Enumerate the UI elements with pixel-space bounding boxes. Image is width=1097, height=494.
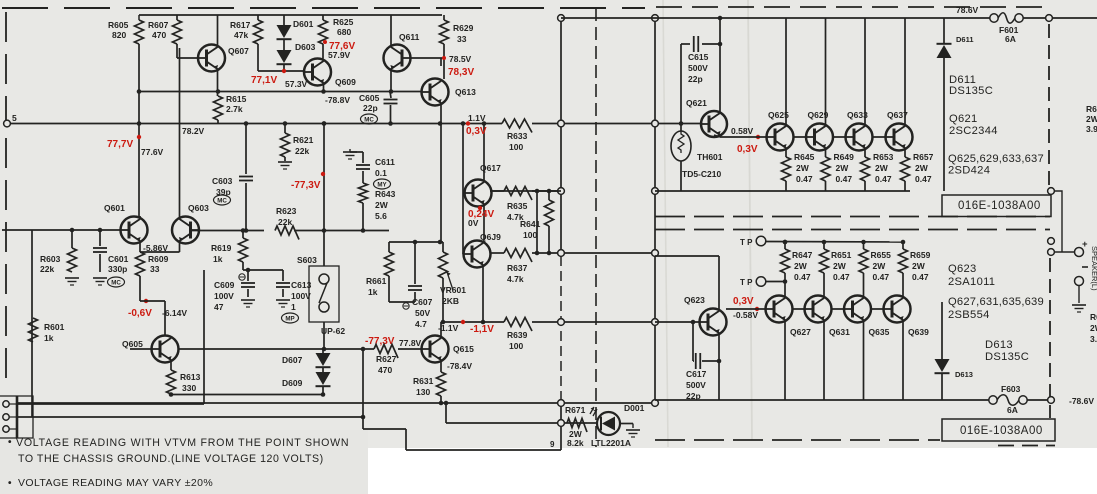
transistor Q607 — [198, 45, 225, 72]
svg-text:D603: D603 — [295, 42, 316, 52]
svg-text:100: 100 — [523, 230, 537, 240]
svg-text:R623: R623 — [276, 206, 297, 216]
resistor R605 — [138, 15, 140, 20]
svg-text:Q629: Q629 — [808, 110, 829, 120]
svg-text:680: 680 — [337, 27, 351, 37]
svg-text:2W: 2W — [915, 163, 929, 173]
svg-text:MC: MC — [111, 279, 121, 286]
box top bottom edge — [655, 216, 1050, 218]
svg-text:R615: R615 — [226, 94, 247, 104]
wire 191 — [490, 190, 504, 192]
svg-text:R645: R645 — [794, 152, 815, 162]
svg-text:R605: R605 — [108, 20, 129, 30]
svg-text:-77,3V: -77,3V — [365, 336, 395, 347]
svg-text:D001: D001 — [624, 403, 645, 413]
svg-text:MC: MC — [217, 197, 227, 204]
svg-text:•: • — [8, 478, 12, 489]
resistor R659 — [902, 242, 904, 249]
potentiometer VR601 — [442, 242, 444, 252]
cap type MC — [214, 195, 231, 205]
resistor R623 — [275, 226, 299, 240]
capacitor C611 — [362, 152, 364, 163]
label -0,6V — [144, 299, 148, 303]
svg-text:-78.6V: -78.6V — [1069, 396, 1094, 406]
label 78.5V — [442, 56, 446, 60]
wire led feed — [445, 403, 447, 423]
transistor Q633 — [846, 124, 873, 151]
svg-text:77,1V: 77,1V — [251, 75, 277, 86]
svg-text:Q605: Q605 — [122, 339, 143, 349]
svg-text:5.6: 5.6 — [375, 211, 387, 221]
svg-text:R639: R639 — [507, 330, 528, 340]
junction — [439, 401, 444, 406]
svg-text:MP: MP — [285, 315, 294, 322]
svg-text:47: 47 — [214, 302, 224, 312]
svg-text:VR601: VR601 — [440, 285, 466, 295]
svg-text:C607: C607 — [412, 297, 433, 307]
svg-text:0.47: 0.47 — [873, 272, 890, 282]
resistor R603 — [71, 230, 73, 248]
svg-text:6A: 6A — [1005, 34, 1016, 44]
svg-text:Q607: Q607 — [228, 46, 249, 56]
resistor R631 — [440, 361, 442, 372]
label 0,3V bottom — [755, 307, 759, 311]
transistor Q629 — [806, 124, 833, 151]
svg-text:R671: R671 — [565, 405, 586, 415]
svg-text:R643: R643 — [375, 189, 396, 199]
node 77.1V — [282, 69, 286, 73]
transistor Q621 — [701, 111, 727, 137]
wire 77.7V rail — [7, 123, 502, 125]
svg-text:R625: R625 — [333, 17, 354, 27]
svg-text:R607: R607 — [148, 20, 169, 30]
svg-text:R637: R637 — [507, 263, 528, 273]
svg-text:-78.4V: -78.4V — [447, 361, 472, 371]
trunk nodes — [558, 15, 565, 22]
box bottom right edge — [1049, 258, 1051, 418]
resistor R633 — [502, 119, 532, 133]
ground D001 — [632, 424, 634, 429]
wire top-right node — [1046, 15, 1053, 22]
resistor R671 — [567, 419, 587, 433]
svg-text:4.7: 4.7 — [415, 319, 427, 329]
svg-text:4.7k: 4.7k — [507, 274, 524, 284]
svg-text:Q631: Q631 — [829, 327, 850, 337]
capacitor C601 — [99, 230, 101, 246]
svg-text:0.47: 0.47 — [796, 174, 813, 184]
svg-text:DS135C: DS135C — [949, 85, 993, 97]
svg-text:2W: 2W — [875, 163, 889, 173]
svg-text:R647: R647 — [792, 250, 813, 260]
resistor R655 — [863, 242, 865, 249]
svg-text:R617: R617 — [230, 20, 251, 30]
svg-text:R659: R659 — [910, 250, 931, 260]
svg-text:1k: 1k — [213, 254, 223, 264]
svg-text:R613: R613 — [180, 372, 201, 382]
diode D611 — [943, 18, 945, 43]
svg-text:100: 100 — [509, 142, 523, 152]
svg-text:016E-1038A00: 016E-1038A00 — [960, 425, 1043, 437]
transistor Q639 — [884, 296, 911, 323]
resistor R625 — [322, 15, 324, 20]
wire S603 top — [323, 231, 325, 267]
resistor R657 — [901, 157, 910, 181]
svg-text:R641: R641 — [520, 219, 541, 229]
capacitor C617 — [692, 322, 694, 361]
capacitor C615 — [681, 43, 690, 45]
svg-text:100: 100 — [509, 341, 523, 351]
svg-text:T P: T P — [740, 278, 753, 287]
transistor Q615 — [422, 336, 449, 363]
wire connector 1 — [17, 403, 204, 405]
svg-text:50V: 50V — [415, 308, 430, 318]
resistor R609 — [136, 252, 145, 276]
wire input line — [2, 229, 120, 231]
svg-text:Q623: Q623 — [948, 263, 977, 275]
wire S603 bottom — [323, 322, 325, 349]
svg-text:D601: D601 — [293, 19, 314, 29]
svg-text:78,3V: 78,3V — [448, 67, 474, 78]
svg-text:VOLTAGE READING WITH VTVM: VOLTAGE READING WITH VTVM FROM THE POINT… — [16, 437, 349, 449]
svg-text:-77,3V: -77,3V — [291, 180, 321, 191]
transistor Q609 — [304, 59, 331, 86]
svg-text:1.1V: 1.1V — [468, 113, 486, 123]
wire to speaker — [1051, 191, 1062, 252]
svg-text:MY: MY — [377, 181, 387, 188]
capacitor C613 — [282, 270, 284, 281]
svg-text:TD5-C210: TD5-C210 — [682, 169, 721, 179]
wire top right rail — [561, 17, 994, 19]
svg-text:2W: 2W — [833, 261, 847, 271]
svg-text:Q611: Q611 — [399, 32, 420, 42]
svg-text:R657: R657 — [913, 152, 934, 162]
wire output base rail bottom — [726, 308, 891, 310]
svg-text:R629: R629 — [453, 23, 474, 33]
wire Q617-Q619 — [483, 205, 485, 240]
svg-text:2SD424: 2SD424 — [948, 165, 990, 177]
diode D603 — [277, 50, 292, 63]
wire Q619 emitter — [482, 266, 484, 322]
svg-text:R631: R631 — [413, 376, 434, 386]
svg-text:Q627,631,635,639: Q627,631,635,639 — [948, 296, 1044, 308]
box bottom top edge — [655, 229, 1050, 231]
svg-text:2KB: 2KB — [442, 296, 459, 306]
svg-text:MC: MC — [364, 116, 374, 123]
svg-text:77.6V: 77.6V — [141, 147, 164, 157]
svg-text:0V: 0V — [468, 218, 479, 228]
transistor Q635 — [844, 296, 871, 323]
svg-text:TO THE CHASSIS GROUND.(LINE: TO THE CHASSIS GROUND.(LINE VOLTAGE 120 … — [18, 453, 324, 465]
wire 253 — [490, 252, 504, 254]
box bottom bottom edge — [655, 439, 940, 441]
svg-text:22p: 22p — [363, 103, 378, 113]
resistor R637 — [504, 249, 532, 263]
svg-text:R653: R653 — [873, 152, 894, 162]
svg-text:1k: 1k — [44, 333, 54, 343]
transistor Q631 — [805, 296, 832, 323]
svg-text:R649: R649 — [834, 152, 855, 162]
wire Q603 emitter — [139, 242, 141, 252]
diode D607 — [322, 349, 324, 353]
svg-text:0,3V: 0,3V — [466, 126, 487, 137]
svg-text:77,7V: 77,7V — [107, 139, 133, 150]
ground C613 — [276, 299, 290, 301]
resistor R613 — [170, 361, 172, 370]
svg-text:33: 33 — [457, 34, 467, 44]
transistor Q627 — [766, 296, 793, 323]
resistor R615 — [214, 96, 223, 120]
svg-text:2W: 2W — [836, 163, 850, 173]
svg-text:Q621: Q621 — [949, 113, 978, 125]
svg-text:8.2k: 8.2k — [567, 438, 584, 448]
svg-text:78.6V: 78.6V — [956, 5, 979, 15]
svg-text:C603: C603 — [212, 176, 233, 186]
label box bottom — [942, 419, 1055, 441]
resistor R635 — [504, 187, 532, 201]
svg-text:R627: R627 — [376, 354, 397, 364]
svg-text:Q6J9: Q6J9 — [480, 232, 501, 242]
vertical trunk x655 — [654, 18, 656, 403]
svg-text:78.2V: 78.2V — [182, 126, 205, 136]
transistor Q619 — [464, 241, 491, 268]
resistor R649 — [821, 157, 830, 181]
wire bottom rail right — [655, 399, 993, 401]
wire cap tops — [243, 269, 283, 271]
cap type MY — [374, 179, 391, 189]
svg-text:0.47: 0.47 — [836, 174, 853, 184]
wire bias top — [389, 241, 443, 243]
wire q617 base col — [462, 124, 464, 255]
svg-text:C609: C609 — [214, 280, 235, 290]
wire tp2 — [756, 277, 766, 287]
svg-text:Q637: Q637 — [887, 110, 908, 120]
resistor R651 — [823, 242, 825, 249]
junction — [137, 121, 142, 126]
svg-text:LTL2201A: LTL2201A — [591, 438, 631, 448]
svg-text:6A: 6A — [1007, 405, 1018, 415]
svg-text:Q609: Q609 — [335, 77, 356, 87]
label 0,3V mid — [756, 135, 760, 139]
wire to Q605 — [139, 276, 141, 301]
svg-text:100V: 100V — [214, 291, 234, 301]
svg-text:2W: 2W — [912, 261, 926, 271]
svg-text:100V: 100V — [291, 291, 311, 301]
svg-text:D613: D613 — [985, 339, 1013, 351]
svg-text:C617: C617 — [686, 369, 707, 379]
svg-text:F603: F603 — [1001, 384, 1021, 394]
svg-text:820: 820 — [112, 30, 126, 40]
svg-text:9: 9 — [550, 440, 555, 449]
svg-text:Q617: Q617 — [480, 163, 501, 173]
svg-text:-1,1V: -1,1V — [470, 324, 494, 335]
svg-text:Q633: Q633 — [847, 110, 868, 120]
wire R627 to base — [398, 348, 421, 350]
resistor R641 — [548, 191, 550, 200]
svg-text:D613: D613 — [955, 370, 973, 379]
svg-text:22k: 22k — [278, 217, 292, 227]
svg-text:22k: 22k — [40, 264, 54, 274]
connector J — [16, 396, 19, 438]
wire -78.8V rail — [139, 91, 429, 93]
svg-text:0.47: 0.47 — [833, 272, 850, 282]
junction — [438, 121, 443, 126]
svg-text:0.47: 0.47 — [915, 174, 932, 184]
svg-text:3.9: 3.9 — [1090, 334, 1097, 344]
svg-text:D611: D611 — [956, 35, 974, 44]
svg-text:33: 33 — [150, 264, 160, 274]
svg-text:Q601: Q601 — [104, 203, 125, 213]
polarity C609 — [239, 274, 245, 280]
svg-text:Q603: Q603 — [188, 203, 209, 213]
svg-text:R651: R651 — [831, 250, 852, 260]
transistor Q613 — [422, 79, 449, 106]
node bottom right — [1048, 397, 1055, 404]
svg-text:47k: 47k — [234, 30, 248, 40]
wire input vertical — [31, 230, 33, 417]
vertical trunk x561 — [560, 18, 562, 256]
junction — [389, 89, 394, 94]
svg-text:Q627: Q627 — [790, 327, 811, 337]
svg-text:0.47: 0.47 — [875, 174, 892, 184]
svg-text:0.47: 0.47 — [912, 272, 929, 282]
label -77,3V — [321, 172, 325, 176]
svg-text:R609: R609 — [148, 254, 169, 264]
svg-text:2SA1011: 2SA1011 — [948, 276, 995, 288]
wire feedback right — [362, 349, 364, 429]
svg-text:Q621: Q621 — [686, 98, 707, 108]
ground R621 — [278, 161, 292, 163]
node 5 — [4, 120, 11, 127]
svg-text:D609: D609 — [282, 378, 303, 388]
svg-text:470: 470 — [152, 30, 166, 40]
svg-text:T P: T P — [740, 238, 753, 247]
dashes under bottom box — [998, 445, 1055, 447]
wire connector 2 — [17, 416, 363, 418]
svg-text:R633: R633 — [507, 131, 528, 141]
transistor Q611 — [384, 45, 411, 72]
svg-text:DS135C: DS135C — [985, 351, 1029, 363]
svg-text:R603: R603 — [40, 254, 61, 264]
resistor R661 — [388, 242, 390, 252]
fuse F601 — [990, 14, 998, 22]
diode D609 — [316, 372, 331, 385]
svg-text:C615: C615 — [688, 52, 709, 62]
transistor Q605 — [152, 336, 179, 363]
led D001 — [597, 412, 620, 435]
svg-text:2W: 2W — [796, 163, 810, 173]
wire top supply rail — [139, 14, 442, 16]
transistor Q623 — [700, 309, 727, 336]
wire tp1 — [756, 236, 766, 246]
resistor R647 — [784, 242, 786, 249]
transistor Q603 — [172, 217, 199, 244]
wire Q603 base rail — [191, 230, 264, 232]
svg-text:Q639: Q639 — [908, 327, 929, 337]
svg-text:R619: R619 — [211, 243, 232, 253]
label box top — [942, 195, 1051, 217]
vertical dashed x596 — [595, 8, 597, 447]
svg-text:-78.8V: -78.8V — [325, 95, 350, 105]
resistor R621 — [284, 124, 286, 134]
svg-text:2W: 2W — [1090, 323, 1097, 333]
svg-text:0.47: 0.47 — [794, 272, 811, 282]
svg-text:0,3V: 0,3V — [733, 296, 754, 307]
svg-text:57.9V: 57.9V — [328, 50, 351, 60]
transistor Q617 — [465, 180, 492, 207]
svg-text:R621: R621 — [293, 135, 314, 145]
resistor R607 — [176, 15, 178, 20]
wire bottom rail — [17, 402, 655, 404]
wire R635-R637 link — [536, 191, 538, 253]
wire c607 bottom — [389, 301, 415, 303]
svg-text:78.5V: 78.5V — [449, 54, 472, 64]
svg-text:2W: 2W — [1086, 114, 1097, 124]
svg-text:R6: R6 — [1090, 312, 1097, 322]
svg-text:470: 470 — [378, 365, 392, 375]
ground R603 — [65, 277, 79, 279]
svg-text:57.3V: 57.3V — [285, 79, 308, 89]
switch S603 — [309, 266, 339, 322]
resistor R629 — [443, 15, 445, 20]
wire feedback — [171, 394, 323, 396]
svg-text:0.58V: 0.58V — [731, 126, 754, 136]
wire 0.58 ext — [655, 190, 910, 192]
svg-text:130: 130 — [416, 387, 430, 397]
svg-text:016E-1038A00: 016E-1038A00 — [958, 200, 1041, 212]
svg-text:2W: 2W — [873, 261, 887, 271]
svg-text:22k: 22k — [295, 146, 309, 156]
wire -77,3V vertical — [323, 124, 325, 231]
top dashed border right section — [656, 6, 1049, 8]
svg-text:-0.58V: -0.58V — [733, 310, 758, 320]
svg-text:1k: 1k — [368, 287, 378, 297]
ground C601 — [93, 277, 107, 279]
resistor R601 — [29, 318, 38, 342]
resistor R645 — [782, 157, 791, 181]
svg-text:77.8V: 77.8V — [399, 338, 422, 348]
cap type MC — [108, 277, 125, 287]
svg-text:Q625,629,633,637: Q625,629,633,637 — [948, 153, 1044, 165]
ground C611 — [343, 151, 357, 153]
svg-text:D607: D607 — [282, 355, 303, 365]
left dashed border — [5, 12, 7, 390]
svg-text:C605: C605 — [359, 93, 380, 103]
svg-text:500V: 500V — [688, 63, 708, 73]
fuse F603 — [989, 396, 997, 404]
svg-text:R601: R601 — [44, 322, 65, 332]
svg-text:C601: C601 — [108, 254, 129, 264]
capacitor C607 — [414, 242, 416, 284]
svg-text:2SB554: 2SB554 — [948, 309, 990, 321]
transistor Q637 — [886, 124, 913, 151]
wire 190 rail — [490, 190, 561, 192]
resistor R617 — [257, 15, 259, 20]
speaker minus — [1082, 266, 1088, 268]
trunk nodes 655 — [652, 15, 659, 22]
wire q623 collector — [655, 255, 719, 257]
svg-text:+: + — [1082, 239, 1088, 250]
svg-text:Q635: Q635 — [869, 327, 890, 337]
svg-text:2SC2344: 2SC2344 — [949, 125, 998, 137]
svg-text:22p: 22p — [688, 74, 703, 84]
top dashed border — [2, 7, 645, 9]
svg-text:0,3V: 0,3V — [737, 144, 758, 155]
transistor Q601 — [121, 217, 148, 244]
resistor R619 — [242, 231, 244, 239]
svg-text:1: 1 — [291, 302, 296, 312]
svg-text:330: 330 — [182, 383, 196, 393]
svg-text:2W: 2W — [375, 200, 389, 210]
